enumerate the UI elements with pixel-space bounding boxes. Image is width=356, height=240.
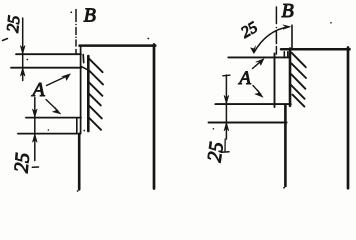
wall edge below lower bar (right figure) xyxy=(284,105,287,186)
dimension shaft top tick (right figure) xyxy=(223,74,230,77)
hatch stroke 2 (right figure) xyxy=(291,63,306,78)
bar1 top edge (right figure) xyxy=(228,56,289,58)
dimension line (lower 25, vertical at x=34.8) xyxy=(34,98,36,161)
bar2 top edge xyxy=(26,117,81,119)
tail tick (right figure) xyxy=(222,151,230,154)
wall face inner line (left figure) xyxy=(80,46,82,134)
hatch stroke 5 xyxy=(88,105,102,119)
svg-text:25: 25 xyxy=(10,152,34,174)
lower bar top edge (right figure) xyxy=(215,103,290,105)
wall face extension line (right figure) xyxy=(291,25,293,48)
speck top right xyxy=(330,22,332,24)
weld tick at bar1 top corner xyxy=(82,55,85,63)
hatch stroke 3 (right figure) xyxy=(291,74,305,89)
arrowhead at curve right end xyxy=(283,25,291,29)
arrowhead at curve lower end xyxy=(251,46,256,54)
wall edge below bar2 (left figure) xyxy=(78,134,81,190)
hatch stroke 3 xyxy=(88,82,102,96)
lower bar bottom edge (right figure) xyxy=(209,122,287,124)
svg-text:B: B xyxy=(282,0,294,22)
hatch stroke 1 (right figure) xyxy=(291,53,305,68)
speck left of axis xyxy=(70,11,72,13)
hatch stroke 4 xyxy=(88,93,101,106)
wall right edge (right figure) xyxy=(347,48,350,189)
weld diagonal at bar1 bottom corner xyxy=(81,66,90,70)
speck at bar2 right corner xyxy=(83,130,85,132)
arrowhead up (tip on lower bar bottom edge, right figure) xyxy=(224,122,229,130)
dimension tail below (right figure) xyxy=(224,139,226,151)
wall top edge (right figure) xyxy=(281,48,350,51)
arrowhead up (tip on bar2 bottom edge) xyxy=(32,134,37,143)
bar2 bottom edge xyxy=(18,133,77,135)
weld tick 2 at bar top corner (right figure) xyxy=(287,52,289,58)
wall right edge (left figure) xyxy=(153,45,156,189)
svg-text:B: B xyxy=(84,4,96,26)
dimension line (upper 25, vertical at x=22.7) xyxy=(22,18,24,81)
tail tick of lower dimension xyxy=(32,166,38,168)
wall face hatched line (left figure) xyxy=(87,56,90,131)
dimension line (right 25, vertical at x=226.4) xyxy=(225,75,227,139)
hatch stroke 5 (right figure) xyxy=(292,95,304,107)
hatch stroke 1 xyxy=(89,58,103,72)
speck above wall xyxy=(147,38,149,40)
hatch stroke 2 xyxy=(89,70,103,84)
arrowhead up (tip on bar1 bottom edge) xyxy=(20,68,25,77)
foot speck xyxy=(77,190,79,192)
bar2 end cap xyxy=(76,118,78,133)
arrowhead down (tip on bar1 top edge) xyxy=(20,46,25,55)
foot speck (right figure) xyxy=(283,187,285,189)
tick below text 25 top left xyxy=(3,39,8,41)
bar1 bottom edge xyxy=(11,67,81,69)
axis B (dash-dot centerline, right figure) xyxy=(275,7,277,54)
arrowhead down (tip on lower bar top edge, right figure) xyxy=(224,95,229,104)
leader arrow from A down to lower bar (right figure) xyxy=(253,86,261,95)
svg-text:25: 25 xyxy=(238,19,260,42)
hatch stroke 4 (right figure) xyxy=(291,85,305,99)
curved dimension line 25 (right figure) xyxy=(254,27,289,53)
wall face line (right figure) xyxy=(289,49,292,106)
svg-text:25: 25 xyxy=(204,141,229,164)
leader arrow from A to lower weld xyxy=(46,100,58,112)
vertical flange left edge (right figure) xyxy=(274,54,276,108)
wall top edge (left figure) xyxy=(80,44,156,47)
leader arrow from A up to bar edge (right figure) xyxy=(253,61,262,69)
svg-text:A: A xyxy=(237,68,251,89)
speck in bar2 xyxy=(48,129,50,131)
hatch stroke 6 xyxy=(88,117,101,130)
leader arrow from A to upper weld xyxy=(47,76,68,86)
speck in bar1 xyxy=(26,59,28,61)
speck in lower bar (right figure) xyxy=(213,128,215,130)
axis B (dash-dot centerline, left figure) xyxy=(75,10,77,54)
svg-text:25: 25 xyxy=(3,14,24,33)
svg-text:A: A xyxy=(31,79,46,101)
weld tick 1 at bar top corner (right figure) xyxy=(283,52,285,58)
bar1 top edge xyxy=(16,53,81,55)
arrowhead down (tip on bar2 top edge) xyxy=(32,109,37,118)
